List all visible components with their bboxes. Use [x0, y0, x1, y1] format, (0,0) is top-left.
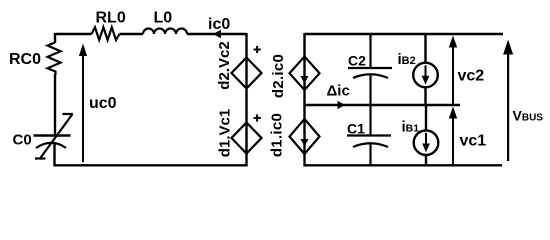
arrow vBUS (points up) — [507, 54, 509, 161]
svg-text:d2.Vc2: d2.Vc2 — [216, 41, 233, 89]
arrow uc0 (points up) — [82, 55, 84, 162]
dependent source d2.Vc2 diamond — [232, 58, 262, 89]
capacitor C0 (variable) — [34, 134, 71, 136]
svg-text:ic0: ic0 — [208, 16, 230, 33]
svg-text:iB1: iB1 — [402, 118, 420, 135]
svg-text:Δic: Δic — [327, 83, 350, 100]
wire top-right horizontal — [305, 33, 504, 35]
capacitor C2 — [348, 34, 392, 105]
resistor RC0 — [48, 43, 61, 76]
resistor RL0 — [92, 27, 120, 40]
current source iB1 circle — [414, 130, 439, 155]
wire middle delta-ic horizontal — [305, 104, 461, 106]
svg-text:C2: C2 — [348, 53, 366, 69]
wire column1 vertical — [245, 33, 247, 166]
arrow vc1 (points up) — [452, 118, 454, 165]
arrow inside iB1 (points down) — [425, 133, 427, 145]
svg-text:iB2: iB2 — [398, 51, 416, 68]
svg-text:L0: L0 — [154, 10, 173, 27]
dependent source d2.ic0 diamond — [290, 57, 320, 91]
svg-text:d2.ic0: d2.ic0 — [270, 54, 287, 98]
arrow inside iB2 (points down) — [425, 65, 427, 77]
svg-text:C1: C1 — [347, 121, 365, 137]
svg-text:d1.Vc1: d1.Vc1 — [217, 109, 234, 157]
dependent source d1.ic0 diamond — [290, 119, 320, 154]
wire bottom-left horizontal — [54, 164, 248, 166]
svg-text:vc2: vc2 — [458, 68, 485, 85]
capacitor C1 — [347, 105, 391, 165]
svg-text:uc0: uc0 — [89, 95, 117, 112]
svg-text:vc1: vc1 — [460, 133, 487, 150]
svg-text:C0: C0 — [13, 132, 32, 149]
dependent source d1.Vc1 diamond — [232, 123, 262, 154]
inductor L0 — [143, 29, 187, 34]
wire top-left horizontal — [55, 33, 247, 35]
arrow ic0 (points left) — [213, 30, 221, 38]
wire left vertical — [53, 33, 56, 166]
wire iB1 column — [425, 105, 427, 165]
svg-text:VBUS: VBUS — [513, 108, 544, 124]
arrow vc2 (points up) — [452, 47, 454, 105]
plus sign of d1.Vc1 — [254, 114, 261, 121]
svg-text:RL0: RL0 — [96, 10, 126, 27]
wire column2 vertical — [303, 33, 305, 166]
arrow inside d1.ic0 (points down) — [301, 139, 309, 147]
arrow inside d2.ic0 (points down) — [301, 76, 309, 84]
svg-text:d1.ic0: d1.ic0 — [269, 113, 286, 157]
wire bottom-right horizontal — [304, 164, 503, 166]
current source iB2 circle — [413, 63, 438, 88]
wire iB2 column — [424, 34, 426, 105]
plus sign of d2.Vc2 — [254, 46, 261, 53]
arrow delta-ic (points right) — [338, 101, 346, 109]
svg-text:RC0: RC0 — [9, 51, 41, 68]
